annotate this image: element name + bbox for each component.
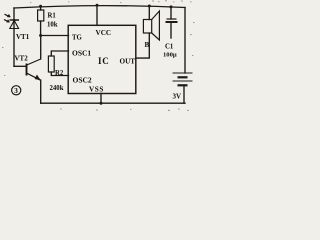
wire VSS drop: [100, 94, 102, 104]
wire R1 top lead: [40, 6, 42, 10]
svg-text:TG: TG: [72, 34, 83, 41]
wire left branch VT1 drop: [13, 8, 15, 66]
op-amp IC U1 box: [68, 25, 136, 93]
transistor VT2: [27, 59, 41, 80]
svg-text:3: 3: [14, 86, 18, 95]
svg-text:B: B: [145, 41, 150, 49]
svg-text:3V: 3V: [173, 93, 182, 101]
svg-text:R2: R2: [55, 70, 64, 77]
wire OUT to speaker: [136, 33, 150, 58]
resistor R1: [38, 10, 44, 21]
junction node speaker rail: [148, 5, 151, 8]
svg-text:OSC1: OSC1: [72, 49, 91, 58]
wire VT2 collector riser to TG node: [40, 36, 42, 60]
wire VT2 emitter drop to ground rail: [40, 80, 42, 103]
wire bottom ground rail: [41, 102, 185, 104]
svg-text:OUT: OUT: [120, 58, 136, 66]
wire OSC1 line from R2 top: [51, 51, 68, 56]
junction node C1 rail: [170, 5, 173, 8]
svg-text:VSS: VSS: [89, 85, 104, 93]
junction node R1 top: [39, 5, 42, 8]
wire battery to ground rail: [183, 85, 185, 103]
capacitor C1: [166, 19, 178, 22]
figure number 3: [12, 86, 21, 95]
svg-text:10k: 10k: [47, 22, 58, 29]
junction node VSS ground: [100, 102, 103, 105]
svg-text:OSC2: OSC2: [73, 76, 92, 85]
battery 3V: [173, 73, 193, 85]
svg-text:VT1: VT1: [16, 33, 30, 41]
junction node VCC rail: [96, 4, 99, 7]
speaker B: [143, 11, 159, 40]
photodiode VT1: [4, 14, 19, 28]
resistor R2: [48, 56, 54, 72]
svg-text:VCC: VCC: [96, 29, 112, 37]
wire C1 bottom lead: [170, 23, 172, 39]
svg-text:VT2: VT2: [15, 54, 29, 62]
wire OSC2 line from R2 bottom: [51, 72, 68, 76]
svg-text:R1: R1: [48, 12, 57, 19]
wire R1 bottom lead: [40, 21, 42, 36]
svg-text:C1: C1: [165, 44, 174, 51]
wire speaker top to rail: [148, 6, 150, 20]
svg-text:100µ: 100µ: [163, 52, 177, 59]
svg-text:240k: 240k: [50, 85, 64, 92]
wire VT2 base lead: [14, 65, 27, 67]
wire TG line: [41, 35, 69, 37]
wire right edge from rail to battery: [184, 8, 186, 74]
wire C1 top lead: [170, 7, 172, 19]
svg-text:IC: IC: [98, 56, 110, 66]
wire top supply rail: [14, 6, 185, 8]
wire VCC riser: [96, 5, 98, 25]
junction node TG R1: [39, 34, 42, 37]
